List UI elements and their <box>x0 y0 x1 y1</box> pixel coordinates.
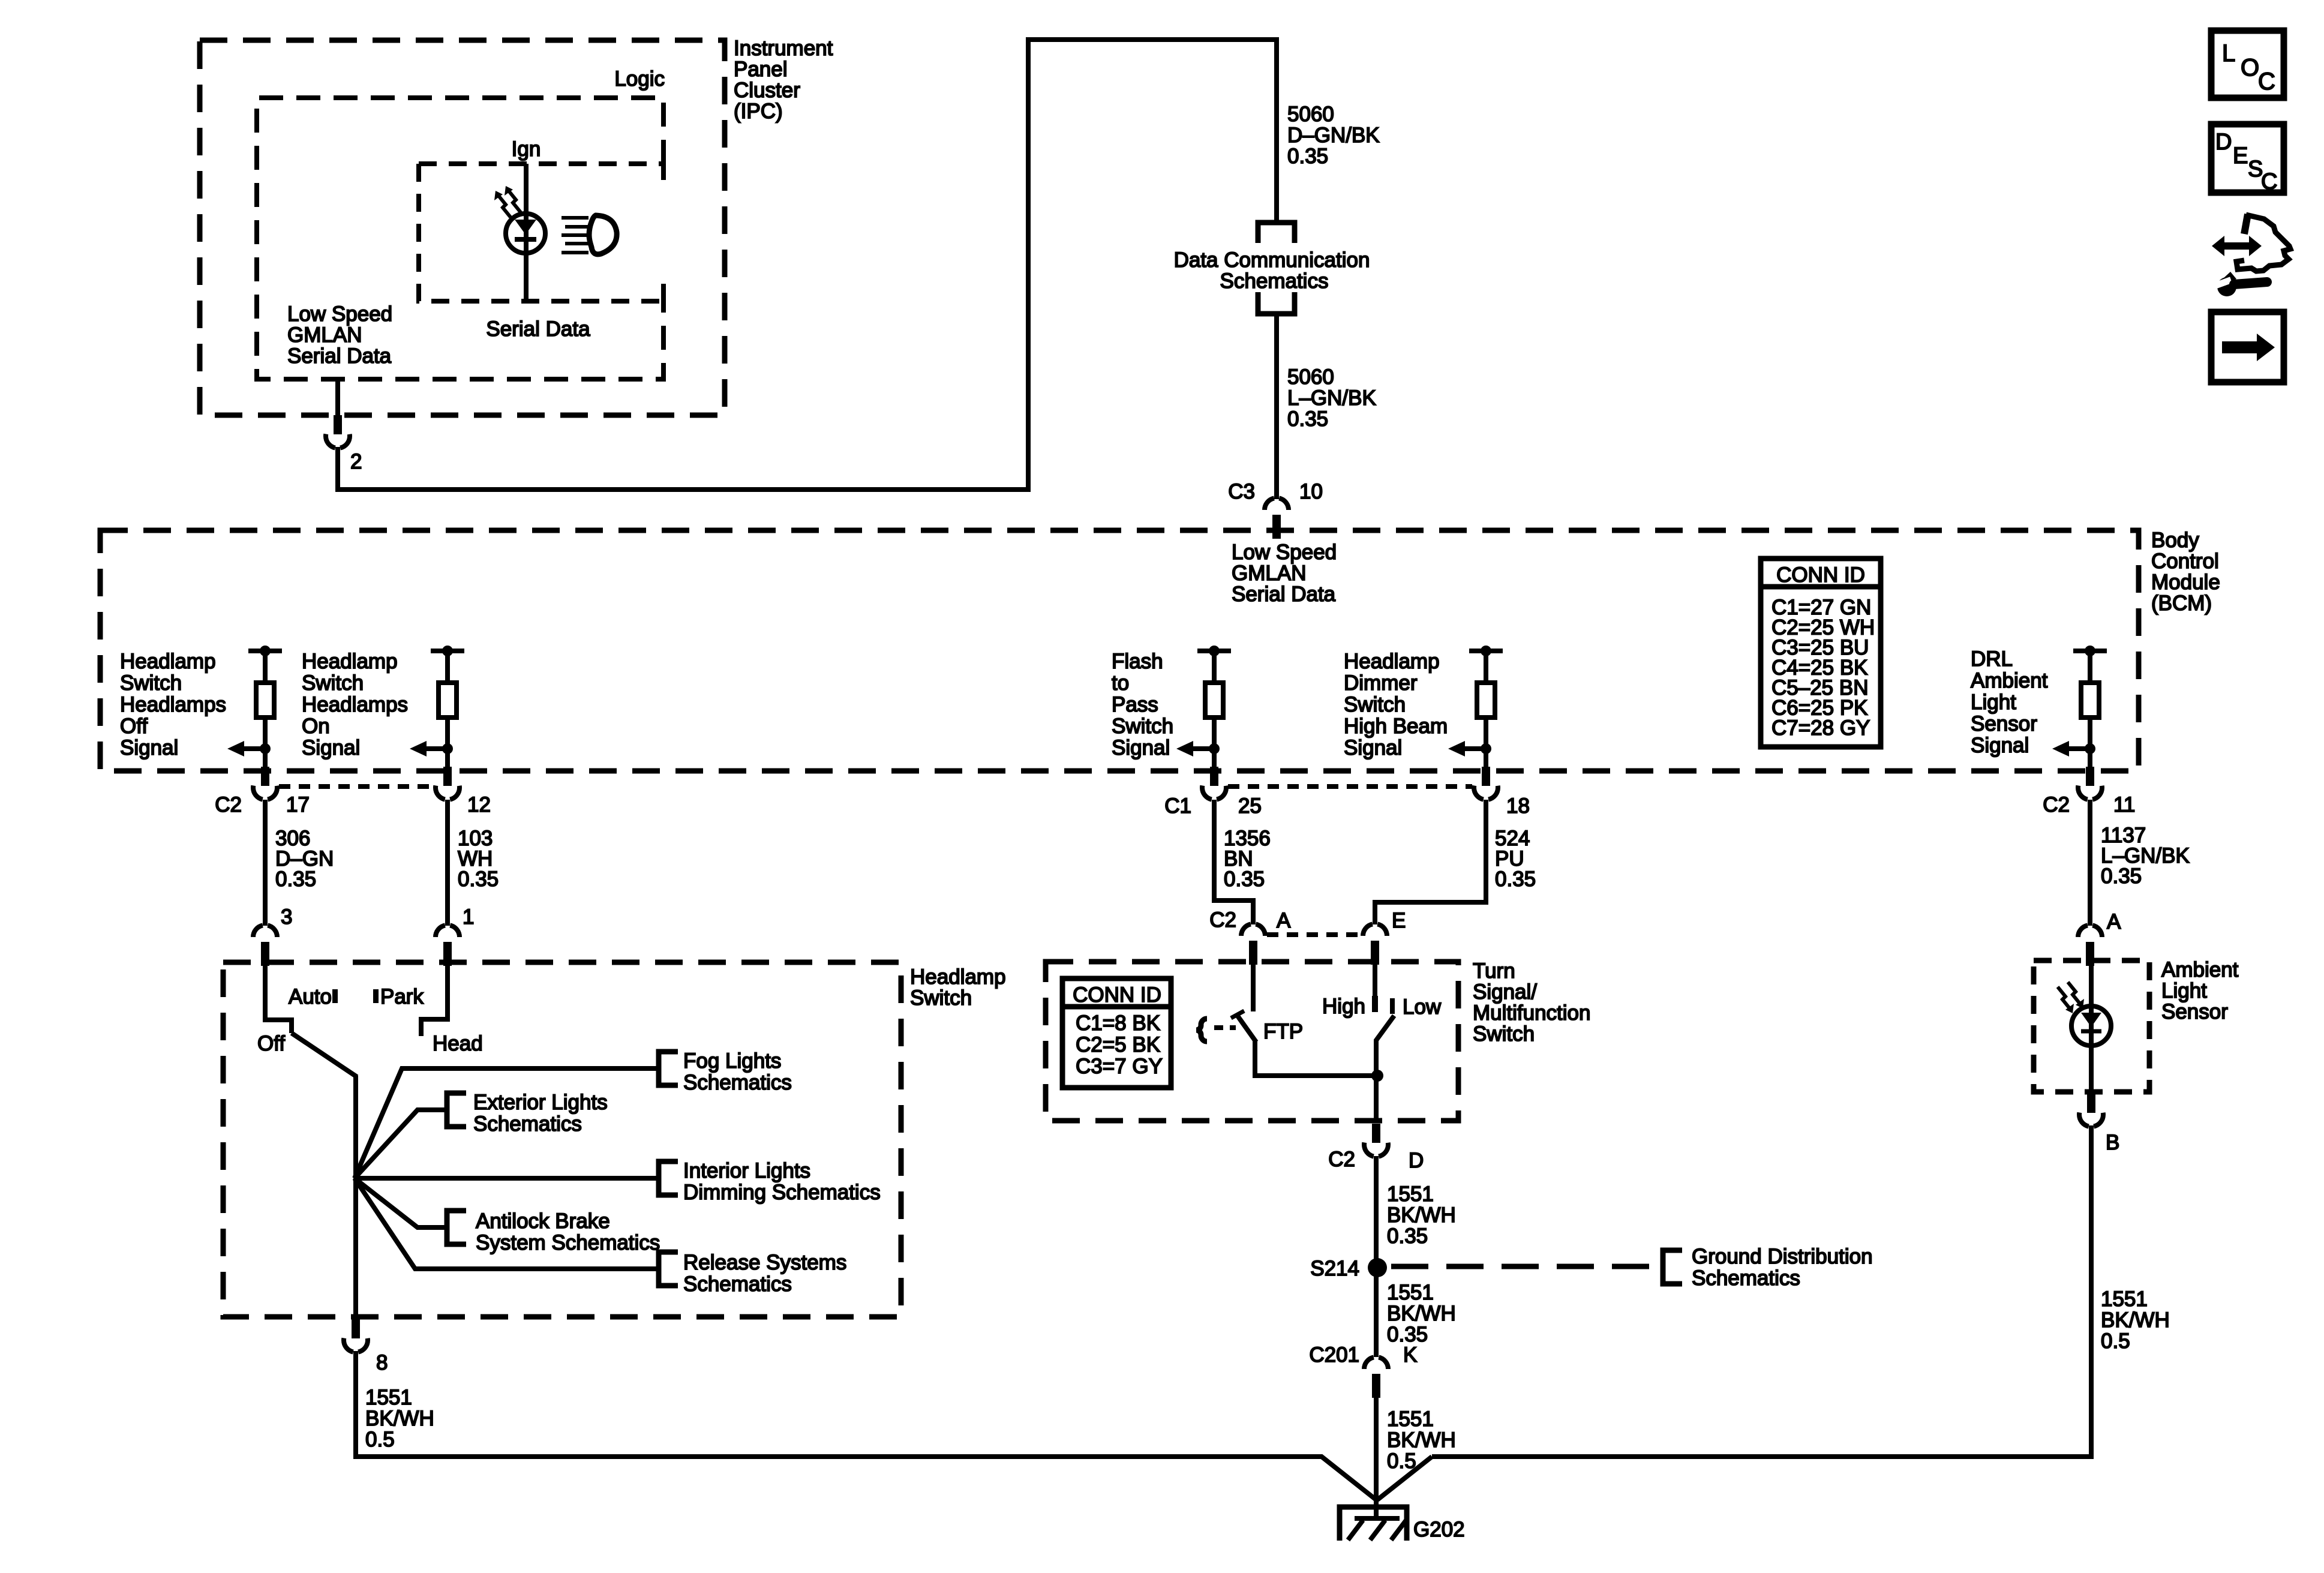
wire from A to FTP <box>1251 963 1256 1011</box>
wire Ign vertical through LED <box>524 164 529 301</box>
funnel into ground <box>1377 1457 1432 1500</box>
connector C2 pin 12 <box>436 767 460 800</box>
svg-text:C: C <box>2258 68 2275 95</box>
connector pin 1 (headlamp switch) <box>436 925 460 966</box>
svg-text:C201: C201 <box>1309 1343 1359 1367</box>
connector link dash C2 A-E <box>1267 932 1361 937</box>
svg-text:5060D–GN/BK0.35: 5060D–GN/BK0.35 <box>1287 103 1380 168</box>
ambient light sensor box <box>2034 960 2149 1092</box>
connector C2 pin 17 <box>253 767 277 800</box>
CONN ID table (switch) <box>1062 978 1171 1088</box>
LED indicator U1 <box>506 214 545 253</box>
ground G202 <box>1340 1507 1407 1541</box>
svg-text:G202: G202 <box>1413 1518 1465 1541</box>
turn signal / multifunction switch box <box>1046 962 1458 1121</box>
svg-text:1137L–GN/BK0.35: 1137L–GN/BK0.35 <box>2101 824 2190 888</box>
svg-text:1551BK/WH0.5: 1551BK/WH0.5 <box>2101 1287 2170 1353</box>
fan wire to exterior lights <box>355 1110 446 1178</box>
BCM box <box>100 530 2139 771</box>
svg-text:D: D <box>1409 1149 1424 1172</box>
svg-text:FlashtoPassSwitchSignal: FlashtoPassSwitchSignal <box>1112 650 1173 760</box>
connector pin B <box>2079 1094 2103 1127</box>
wire from pin 2 to data communication <box>338 40 1277 490</box>
connector pin 2 (IPC) <box>326 415 350 448</box>
connector C201 pin K <box>1364 1357 1388 1398</box>
switch FTP blade <box>1237 1015 1256 1042</box>
wire 306 D-GN <box>263 800 268 926</box>
switch blade off <box>292 1033 357 1077</box>
CONN ID table (BCM) <box>1761 559 1881 747</box>
fan wire to fog lights <box>355 1068 657 1178</box>
connector C2 pin 11 <box>2078 767 2102 800</box>
connector link dash C2 <box>279 784 434 789</box>
IPC module box <box>200 40 725 415</box>
wire below sensor <box>2089 1046 2094 1093</box>
svg-text:C1: C1 <box>1164 794 1191 818</box>
wire 1551 BK/WH 0.35 upper <box>1374 1156 1379 1268</box>
svg-text:Ground DistributionSchematics: Ground DistributionSchematics <box>1692 1245 1873 1290</box>
fan wire to antilock brake <box>355 1178 446 1227</box>
svg-text:17: 17 <box>286 793 310 816</box>
svg-text:Head: Head <box>433 1032 483 1055</box>
svg-text:524PU0.35: 524PU0.35 <box>1495 827 1536 891</box>
svg-text:HeadlampSwitch: HeadlampSwitch <box>910 965 1006 1010</box>
icon DESC <box>2211 124 2284 193</box>
wire into switch (head) <box>421 963 448 1036</box>
svg-text:11: 11 <box>2113 793 2135 816</box>
wire 1137 L-GN/BK <box>2088 800 2092 926</box>
svg-text:C2: C2 <box>215 793 242 816</box>
svg-text:Ign: Ign <box>512 137 541 161</box>
svg-text:CONN ID: CONN ID <box>1776 563 1865 587</box>
FTP linkage dash <box>1214 1025 1236 1030</box>
svg-text:HeadlampSwitchHeadlampsOffSign: HeadlampSwitchHeadlampsOffSignal <box>120 650 226 760</box>
svg-text:Logic: Logic <box>614 67 665 91</box>
svg-text:C2: C2 <box>1209 908 1236 932</box>
svg-text:5060L–GN/BK0.35: 5060L–GN/BK0.35 <box>1287 365 1376 431</box>
svg-text:Low: Low <box>1403 995 1442 1019</box>
svg-text:103WH0.35: 103WH0.35 <box>458 827 499 891</box>
svg-text:DRLAmbientLightSensorSignal: DRLAmbientLightSensorSignal <box>1971 647 2048 757</box>
svg-text:18: 18 <box>1506 794 1530 818</box>
svg-text:HeadlampDimmerSwitchHigh BeamS: HeadlampDimmerSwitchHigh BeamSignal <box>1344 650 1448 760</box>
wire 103 WH <box>445 800 450 926</box>
svg-text:Exterior LightsSchematics: Exterior LightsSchematics <box>473 1091 608 1136</box>
svg-text:InstrumentPanelCluster(IPC): InstrumentPanelCluster(IPC) <box>734 37 833 123</box>
svg-text:C3: C3 <box>1228 480 1255 503</box>
wire 1551 BK/WH 0.5 right <box>1432 1125 2091 1457</box>
switch high/low blade <box>1376 1016 1394 1076</box>
icon schematic pointer (arrow + outline + wrench) <box>2206 214 2290 296</box>
wire 1551 BK/WH 0.5 left <box>356 1351 1376 1500</box>
connector C1 pin 25 <box>1202 767 1226 800</box>
wire 524 PU <box>1375 800 1486 924</box>
svg-text:S214: S214 <box>1310 1257 1359 1280</box>
svg-text:C2: C2 <box>2043 793 2070 816</box>
icon LOC <box>2211 31 2284 98</box>
svg-text:AmbientLightSensor: AmbientLightSensor <box>2161 958 2239 1023</box>
svg-text:C2: C2 <box>1328 1148 1355 1171</box>
svg-text:FTP: FTP <box>1263 1020 1303 1043</box>
svg-text:O: O <box>2241 55 2259 81</box>
connector pin 3 (headlamp switch) <box>253 925 277 966</box>
svg-text:C: C <box>2261 169 2277 194</box>
wire 5060 L-GN/BK <box>1274 314 1279 499</box>
svg-text:L: L <box>2222 40 2235 67</box>
svg-text:Fog LightsSchematics: Fog LightsSchematics <box>683 1049 792 1094</box>
fan wire to release systems <box>355 1178 657 1269</box>
wire GMLAN serial data to pin 2 <box>335 379 340 416</box>
wire FTP common <box>1255 1041 1377 1076</box>
svg-text:Data Communication: Data Communication <box>1174 248 1370 272</box>
svg-text:Low SpeedGMLANSerial Data: Low SpeedGMLANSerial Data <box>1232 541 1337 606</box>
wire from E (high terminal) <box>1373 963 1377 1012</box>
icon forward arrow <box>2211 312 2284 382</box>
contact tick park <box>373 989 379 1003</box>
svg-text:E: E <box>2233 143 2248 169</box>
svg-text:C1=8 BKC2=5 BKC3=7 GY: C1=8 BKC2=5 BKC3=7 GY <box>1076 1011 1163 1078</box>
wire 1551 BK/WH 0.5 to ground <box>1374 1396 1379 1518</box>
svg-text:3: 3 <box>281 905 292 929</box>
fan wire to interior lights <box>355 1176 657 1181</box>
wire to C2 D <box>1374 1076 1379 1122</box>
svg-text:1551BK/WH0.35: 1551BK/WH0.35 <box>1387 1182 1456 1248</box>
svg-text:D: D <box>2215 130 2232 155</box>
svg-text:Schematics: Schematics <box>1220 269 1329 293</box>
resistor headlamps on signal <box>410 646 464 771</box>
splice S214 <box>1368 1258 1387 1277</box>
resistor headlamps off signal <box>227 646 282 771</box>
svg-text:BodyControlModule(BCM): BodyControlModule(BCM) <box>2151 529 2220 615</box>
svg-text:8: 8 <box>376 1351 388 1374</box>
svg-text:12: 12 <box>467 793 491 816</box>
svg-text:A: A <box>1277 909 1291 932</box>
dashed wire to ground distribution <box>1391 1264 1661 1269</box>
svg-text:Low SpeedGMLANSerial Data: Low SpeedGMLANSerial Data <box>287 302 392 368</box>
photodiode <box>2071 1006 2111 1046</box>
connector link dash C1 <box>1228 784 1472 789</box>
resistor DRL ambient light sensor signal <box>2052 646 2107 771</box>
resistor flash to pass signal <box>1176 646 1231 771</box>
svg-text:Interior LightsDimming Schemat: Interior LightsDimming Schematics <box>683 1159 881 1204</box>
svg-text:Park: Park <box>380 985 424 1008</box>
logic box <box>257 98 663 379</box>
svg-text:25: 25 <box>1238 794 1262 818</box>
contact tick auto <box>332 989 338 1003</box>
wire common down <box>353 1076 358 1320</box>
svg-text:Serial Data: Serial Data <box>486 317 590 341</box>
connector pin A (ambient light sensor) <box>2078 925 2102 966</box>
connector C3 pin 10 (BCM) <box>1265 498 1289 539</box>
svg-text:Off: Off <box>257 1032 285 1055</box>
svg-text:1551BK/WH0.5: 1551BK/WH0.5 <box>365 1386 434 1451</box>
resistor high beam signal <box>1448 646 1503 771</box>
headlamp beam icon <box>562 216 588 220</box>
connector C2 pin D <box>1364 1124 1388 1157</box>
svg-text:Antilock BrakeSystem Schematic: Antilock BrakeSystem Schematics <box>476 1209 660 1254</box>
photodiode arrows <box>2058 987 2070 1009</box>
headlamp switch box <box>223 962 901 1317</box>
svg-text:Auto: Auto <box>289 985 332 1008</box>
contact tick low <box>1390 998 1395 1014</box>
svg-text:CONN ID: CONN ID <box>1073 983 1161 1007</box>
svg-text:Release SystemsSchematics: Release SystemsSchematics <box>683 1251 846 1296</box>
svg-text:1551BK/WH0.35: 1551BK/WH0.35 <box>1387 1281 1456 1346</box>
svg-text:10: 10 <box>1299 480 1323 503</box>
off-page ref: data communication schematics <box>1258 223 1295 243</box>
svg-text:B: B <box>2106 1131 2119 1154</box>
connector C1 pin 18 <box>1474 767 1498 800</box>
svg-text:1356BN0.35: 1356BN0.35 <box>1224 827 1271 891</box>
svg-text:306D–GN0.35: 306D–GN0.35 <box>275 827 334 891</box>
wire 1551 BK/WH 0.35 lower <box>1374 1268 1379 1357</box>
connector C2 pin E <box>1363 924 1387 965</box>
wire into switch (auto) <box>265 963 292 1033</box>
connector pin 8 <box>344 1319 368 1352</box>
svg-text:TurnSignal/MultifunctionSwitch: TurnSignal/MultifunctionSwitch <box>1473 959 1590 1046</box>
svg-text:E: E <box>1392 909 1406 932</box>
junction <box>1371 1070 1383 1082</box>
wire 1356 BN <box>1214 800 1253 924</box>
display box around LED <box>419 164 663 301</box>
svg-text:A: A <box>2107 910 2121 933</box>
LED arrows <box>498 195 511 217</box>
FTP momentary symbol <box>1196 1019 1207 1041</box>
svg-text:High: High <box>1322 995 1365 1018</box>
svg-text:HeadlampSwitchHeadlampsOnSigna: HeadlampSwitchHeadlampsOnSignal <box>302 650 408 760</box>
svg-text:C1=27 GNC2=25 WHC3=25 BUC4=25: C1=27 GNC2=25 WHC3=25 BUC4=25 BKC5–25 BN… <box>1771 596 1875 740</box>
svg-text:2: 2 <box>350 450 362 473</box>
connector C2 pin A <box>1241 924 1265 965</box>
wire through sensor <box>2089 964 2094 1007</box>
svg-text:1: 1 <box>463 905 474 929</box>
svg-text:K: K <box>1403 1343 1417 1367</box>
